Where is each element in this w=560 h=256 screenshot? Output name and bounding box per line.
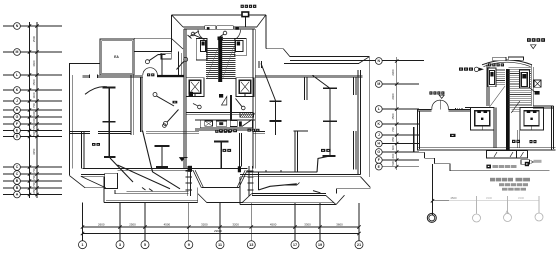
shaft box left of stairs <box>196 39 207 61</box>
roof distribution box label <box>241 5 244 8</box>
right plan faint dimensions <box>449 196 539 213</box>
southeast room label <box>321 149 325 152</box>
smoke entrance arrow <box>439 95 444 98</box>
lamp lower core right <box>242 106 246 110</box>
drawing title line 3 <box>502 188 507 191</box>
entry double door arcs <box>143 68 150 75</box>
upper block right hip <box>257 15 266 27</box>
lamp and wire near stair entry <box>184 57 188 61</box>
stair core north wall <box>184 26 255 28</box>
right plan curved top wall <box>482 60 532 65</box>
right wing vertical wall 2 <box>353 131 355 169</box>
wire branch left <box>118 165 171 189</box>
dimension strip below right plan <box>487 151 517 158</box>
left terrace bottom border <box>104 202 198 204</box>
svg-text:600: 600 <box>32 118 36 123</box>
svg-text:3200: 3200 <box>232 222 239 226</box>
southwest chamfer outer <box>70 176 86 188</box>
feeder riser cable <box>230 95 232 120</box>
svg-text:3300: 3300 <box>518 196 525 200</box>
note text gray <box>493 165 498 168</box>
right wing wall stub 2 <box>353 77 355 95</box>
south facade wall middle <box>83 167 194 169</box>
lamp and wire hall lower <box>164 122 168 126</box>
entrance porch lower step <box>198 194 207 203</box>
svg-text:700: 700 <box>32 168 36 173</box>
triangle vent symbol <box>222 97 227 106</box>
right wing top wall <box>284 62 359 64</box>
thick entry wall with label <box>157 75 184 77</box>
dark blocks on core top wall <box>207 27 210 30</box>
lamp and wire hall middle <box>153 93 157 97</box>
wire southeast room <box>317 156 330 172</box>
stair label right plan <box>488 63 491 66</box>
right wing eave top edge <box>290 56 370 58</box>
core top left door arc <box>198 30 205 40</box>
svg-text:3300: 3300 <box>486 196 493 200</box>
right terrace inner line <box>252 193 326 195</box>
hall west wall <box>81 132 83 169</box>
dark column at shaft corner <box>189 92 193 96</box>
elevator shaft left <box>186 78 204 97</box>
small boxes right of strip <box>521 160 530 165</box>
svg-text:4500: 4500 <box>450 196 457 200</box>
equipment label below core <box>215 130 218 133</box>
stair treads right flight <box>222 38 235 40</box>
smoke entrance label <box>429 91 432 94</box>
bottom overall dimension line <box>83 233 360 235</box>
left terrace right edge <box>197 188 199 203</box>
stair break diagonal <box>207 49 218 78</box>
dark blob in lower room <box>239 121 242 126</box>
beam symbol T1 bedroom <box>108 87 110 157</box>
entrance porch upper step <box>193 170 201 187</box>
wire drop in bottom center room <box>257 172 259 190</box>
left wing outer wall segment <box>81 173 105 175</box>
beam symbol T3 center <box>220 141 222 169</box>
south window right <box>248 166 250 196</box>
dark pier right of porch <box>238 166 241 172</box>
right stair treads east <box>509 66 531 68</box>
machine room EA <box>100 39 134 75</box>
main building east eave line <box>368 57 370 177</box>
svg-text:3300: 3300 <box>304 222 311 226</box>
drawing title line 1 <box>490 178 495 182</box>
core lower wall <box>186 111 253 113</box>
svg-text:M: M <box>377 82 380 86</box>
svg-text:2400: 2400 <box>391 93 395 100</box>
long wire living room <box>143 131 181 189</box>
middle dimension texts <box>391 69 395 166</box>
svg-text:600: 600 <box>32 111 36 116</box>
dark sill at porch left <box>188 166 192 172</box>
interior wall top of left wing <box>83 74 143 76</box>
right terrace left edge <box>239 177 241 205</box>
roof water tank arrow <box>531 45 537 49</box>
svg-text:550: 550 <box>32 124 36 129</box>
right plan core west wall <box>486 65 488 107</box>
svg-text:700: 700 <box>32 175 36 180</box>
core bottom wall right stub <box>253 131 265 133</box>
left grid axis bubbles column <box>3 23 62 198</box>
beam symbol T6 northeast room <box>275 101 277 135</box>
right wing middle wall horizontal <box>294 130 309 132</box>
lower room box 3 <box>230 121 237 127</box>
svg-text:4500: 4500 <box>164 222 171 226</box>
left dimension texts <box>32 35 36 193</box>
bedroom east wall <box>130 75 132 135</box>
right terrace bottom border <box>240 204 336 206</box>
shaft top walls <box>465 107 470 109</box>
roof hip diagonal <box>172 39 184 50</box>
svg-text:1100: 1100 <box>32 92 36 98</box>
svg-text:500: 500 <box>32 131 36 136</box>
svg-text:J: J <box>16 99 18 103</box>
wire to T6 beam <box>261 64 276 101</box>
pilaster line left of right plan <box>413 127 415 152</box>
svg-text:EA: EA <box>114 55 119 59</box>
wire bottom center room <box>258 184 296 190</box>
svg-text:1500: 1500 <box>32 79 36 86</box>
svg-text:M: M <box>16 50 19 54</box>
stair core west wall <box>183 29 185 168</box>
right plan mid walls <box>493 108 495 148</box>
right plan core east wall <box>530 65 532 107</box>
wire along facade bottom center <box>247 171 317 173</box>
wire right wing to beam <box>313 75 330 88</box>
bottom room east wall <box>238 133 240 166</box>
svg-text:1500: 1500 <box>391 113 395 120</box>
core bottom wall <box>195 127 253 129</box>
main building northwest top wall <box>69 62 100 64</box>
upper block left hip <box>172 15 184 27</box>
svg-text:600: 600 <box>391 153 395 158</box>
right plan bottom wall <box>418 147 556 149</box>
stair flight center wall <box>218 37 222 83</box>
right stair center wall <box>506 69 510 151</box>
southeast corner chamfer <box>360 177 370 188</box>
dark box at stair foot <box>219 94 223 98</box>
svg-text:700: 700 <box>32 103 36 108</box>
svg-text:600: 600 <box>391 145 395 150</box>
left dimension chain lines <box>29 22 31 198</box>
svg-text:2500: 2500 <box>129 222 136 226</box>
right plan shaft box northwest <box>488 68 496 87</box>
unit type label left <box>219 129 223 132</box>
core lower room <box>195 119 255 121</box>
hall ceiling lamp <box>163 124 167 128</box>
right wing wall stub below top edge <box>258 61 260 68</box>
svg-text:3350: 3350 <box>32 148 36 155</box>
svg-text:700: 700 <box>391 127 395 132</box>
bedroom south wall <box>69 131 90 133</box>
porch box on left facade <box>105 173 118 188</box>
core top lamps <box>191 32 195 36</box>
wire from lower room <box>242 120 252 127</box>
lamp lower core left <box>198 105 202 109</box>
svg-text:530: 530 <box>391 161 395 166</box>
roof edge line right of machine room <box>134 37 172 39</box>
right plan west wall <box>417 109 419 150</box>
eave line right of machine room <box>134 50 161 52</box>
lower landing treads <box>512 109 520 111</box>
right plan dim bubble dark <box>427 213 436 222</box>
right terrace east slant <box>336 195 345 204</box>
northeast hip diagonal <box>359 57 369 64</box>
elevator shaft right <box>236 78 254 97</box>
vertical wall above entry <box>178 51 180 75</box>
bottom dimension extension lines <box>82 203 84 240</box>
wire bedroom lower <box>110 158 133 182</box>
lower room box 2 <box>216 121 227 126</box>
upper block inner eave line <box>183 26 257 28</box>
switch on right wing bottom wall <box>285 184 297 186</box>
stair block to left wing wall <box>161 50 172 52</box>
dark square symbol <box>525 162 529 166</box>
stair cut diagonal right plan <box>490 86 506 107</box>
main building west wall <box>69 63 71 175</box>
right wing inner top wall <box>255 74 362 76</box>
svg-text:2500: 2500 <box>32 35 36 42</box>
drawing title line 2 <box>499 183 504 186</box>
svg-text:3600: 3600 <box>32 60 36 67</box>
main building east wall <box>357 70 359 175</box>
right plan top windows <box>493 57 506 60</box>
shaft box right of stairs <box>234 39 246 56</box>
right wing wall stub 1 <box>304 77 306 100</box>
upper block (stair machine room) outline <box>171 15 173 53</box>
lower room box 1 <box>205 121 213 126</box>
facade line above porch <box>193 167 247 169</box>
bottom grid axis bubbles <box>79 241 364 249</box>
bedroom curved wire <box>85 87 107 95</box>
south window left <box>186 166 188 196</box>
bedroom2 label <box>92 143 96 146</box>
southwest chamfer inner <box>81 176 106 188</box>
right plan elevator shaft left <box>470 108 494 131</box>
hatched duct area <box>240 113 255 118</box>
stair core east wall <box>252 29 254 168</box>
right plan faint bubbles <box>473 214 481 222</box>
bottom dimension line 1 <box>83 226 360 228</box>
right stair treads west <box>489 69 505 71</box>
upper block right ledge <box>266 48 283 50</box>
unit type label right <box>248 129 251 132</box>
right plan shaft box northeast <box>520 70 530 88</box>
right terrace slant <box>326 195 336 204</box>
stair treads left flight <box>206 48 218 50</box>
lobby label <box>450 134 456 137</box>
svg-text:2600: 2600 <box>98 222 105 226</box>
right wing vertical wall 1 <box>294 131 296 173</box>
stair core north windows <box>205 26 216 30</box>
middle dimension chain line <box>396 57 398 170</box>
right plan entrance wall right <box>449 108 472 110</box>
right plan top edge east section <box>533 105 553 107</box>
svg-text:J: J <box>378 133 380 137</box>
right plan top label <box>527 38 531 42</box>
smoke vent box <box>534 80 541 87</box>
right plan east wall <box>551 106 553 151</box>
right plan elevator shaft right <box>520 108 544 131</box>
wire to left of core <box>190 31 200 37</box>
svg-text:850: 850 <box>391 136 395 141</box>
svg-text:17: 17 <box>293 242 297 247</box>
core top right door arc <box>235 30 241 40</box>
svg-text:700: 700 <box>32 182 36 187</box>
feeder from roof box <box>245 17 247 28</box>
svg-text:G: G <box>16 115 19 119</box>
beam symbol T2 hall <box>161 146 163 168</box>
facade wall right section <box>240 174 360 176</box>
middle grid axis bubbles column <box>290 58 424 170</box>
elevator hall labels <box>512 140 516 143</box>
beam symbol T4 right wing <box>329 88 331 156</box>
right plan entry steps <box>418 151 425 153</box>
svg-text:29600: 29600 <box>214 229 222 233</box>
window bay below stair block wall <box>161 53 171 59</box>
elevation marker at porch <box>180 158 185 162</box>
left inner terrace line <box>114 190 116 194</box>
svg-text:3600: 3600 <box>336 222 343 226</box>
hall lower wall <box>146 131 199 133</box>
stair top landing dark block <box>218 37 223 41</box>
fire elevator label <box>459 68 463 71</box>
eave left diagonal <box>283 49 289 57</box>
svg-text:4500: 4500 <box>270 222 277 226</box>
switch ticks on facade <box>142 188 146 191</box>
right plan entrance double door <box>432 100 440 109</box>
svg-text:650: 650 <box>32 188 36 193</box>
pier break in top wall <box>90 74 98 77</box>
right plan entrance wall left <box>418 108 432 110</box>
note icon dark <box>486 165 491 169</box>
lamp and wire upper hall <box>145 60 149 64</box>
wire to smoke vent <box>530 88 536 93</box>
roof distribution box symbol <box>242 12 249 17</box>
svg-text:2300: 2300 <box>391 69 395 76</box>
svg-text:3200: 3200 <box>201 222 208 226</box>
window hatch on entrance wall <box>454 108 456 110</box>
left terrace edge <box>85 187 106 189</box>
svg-text:G: G <box>377 150 380 154</box>
bottom dimension texts <box>81 222 361 235</box>
ground line right plan <box>450 170 550 172</box>
right plan dim extension line dark <box>432 164 434 216</box>
hall east wall <box>139 77 141 132</box>
